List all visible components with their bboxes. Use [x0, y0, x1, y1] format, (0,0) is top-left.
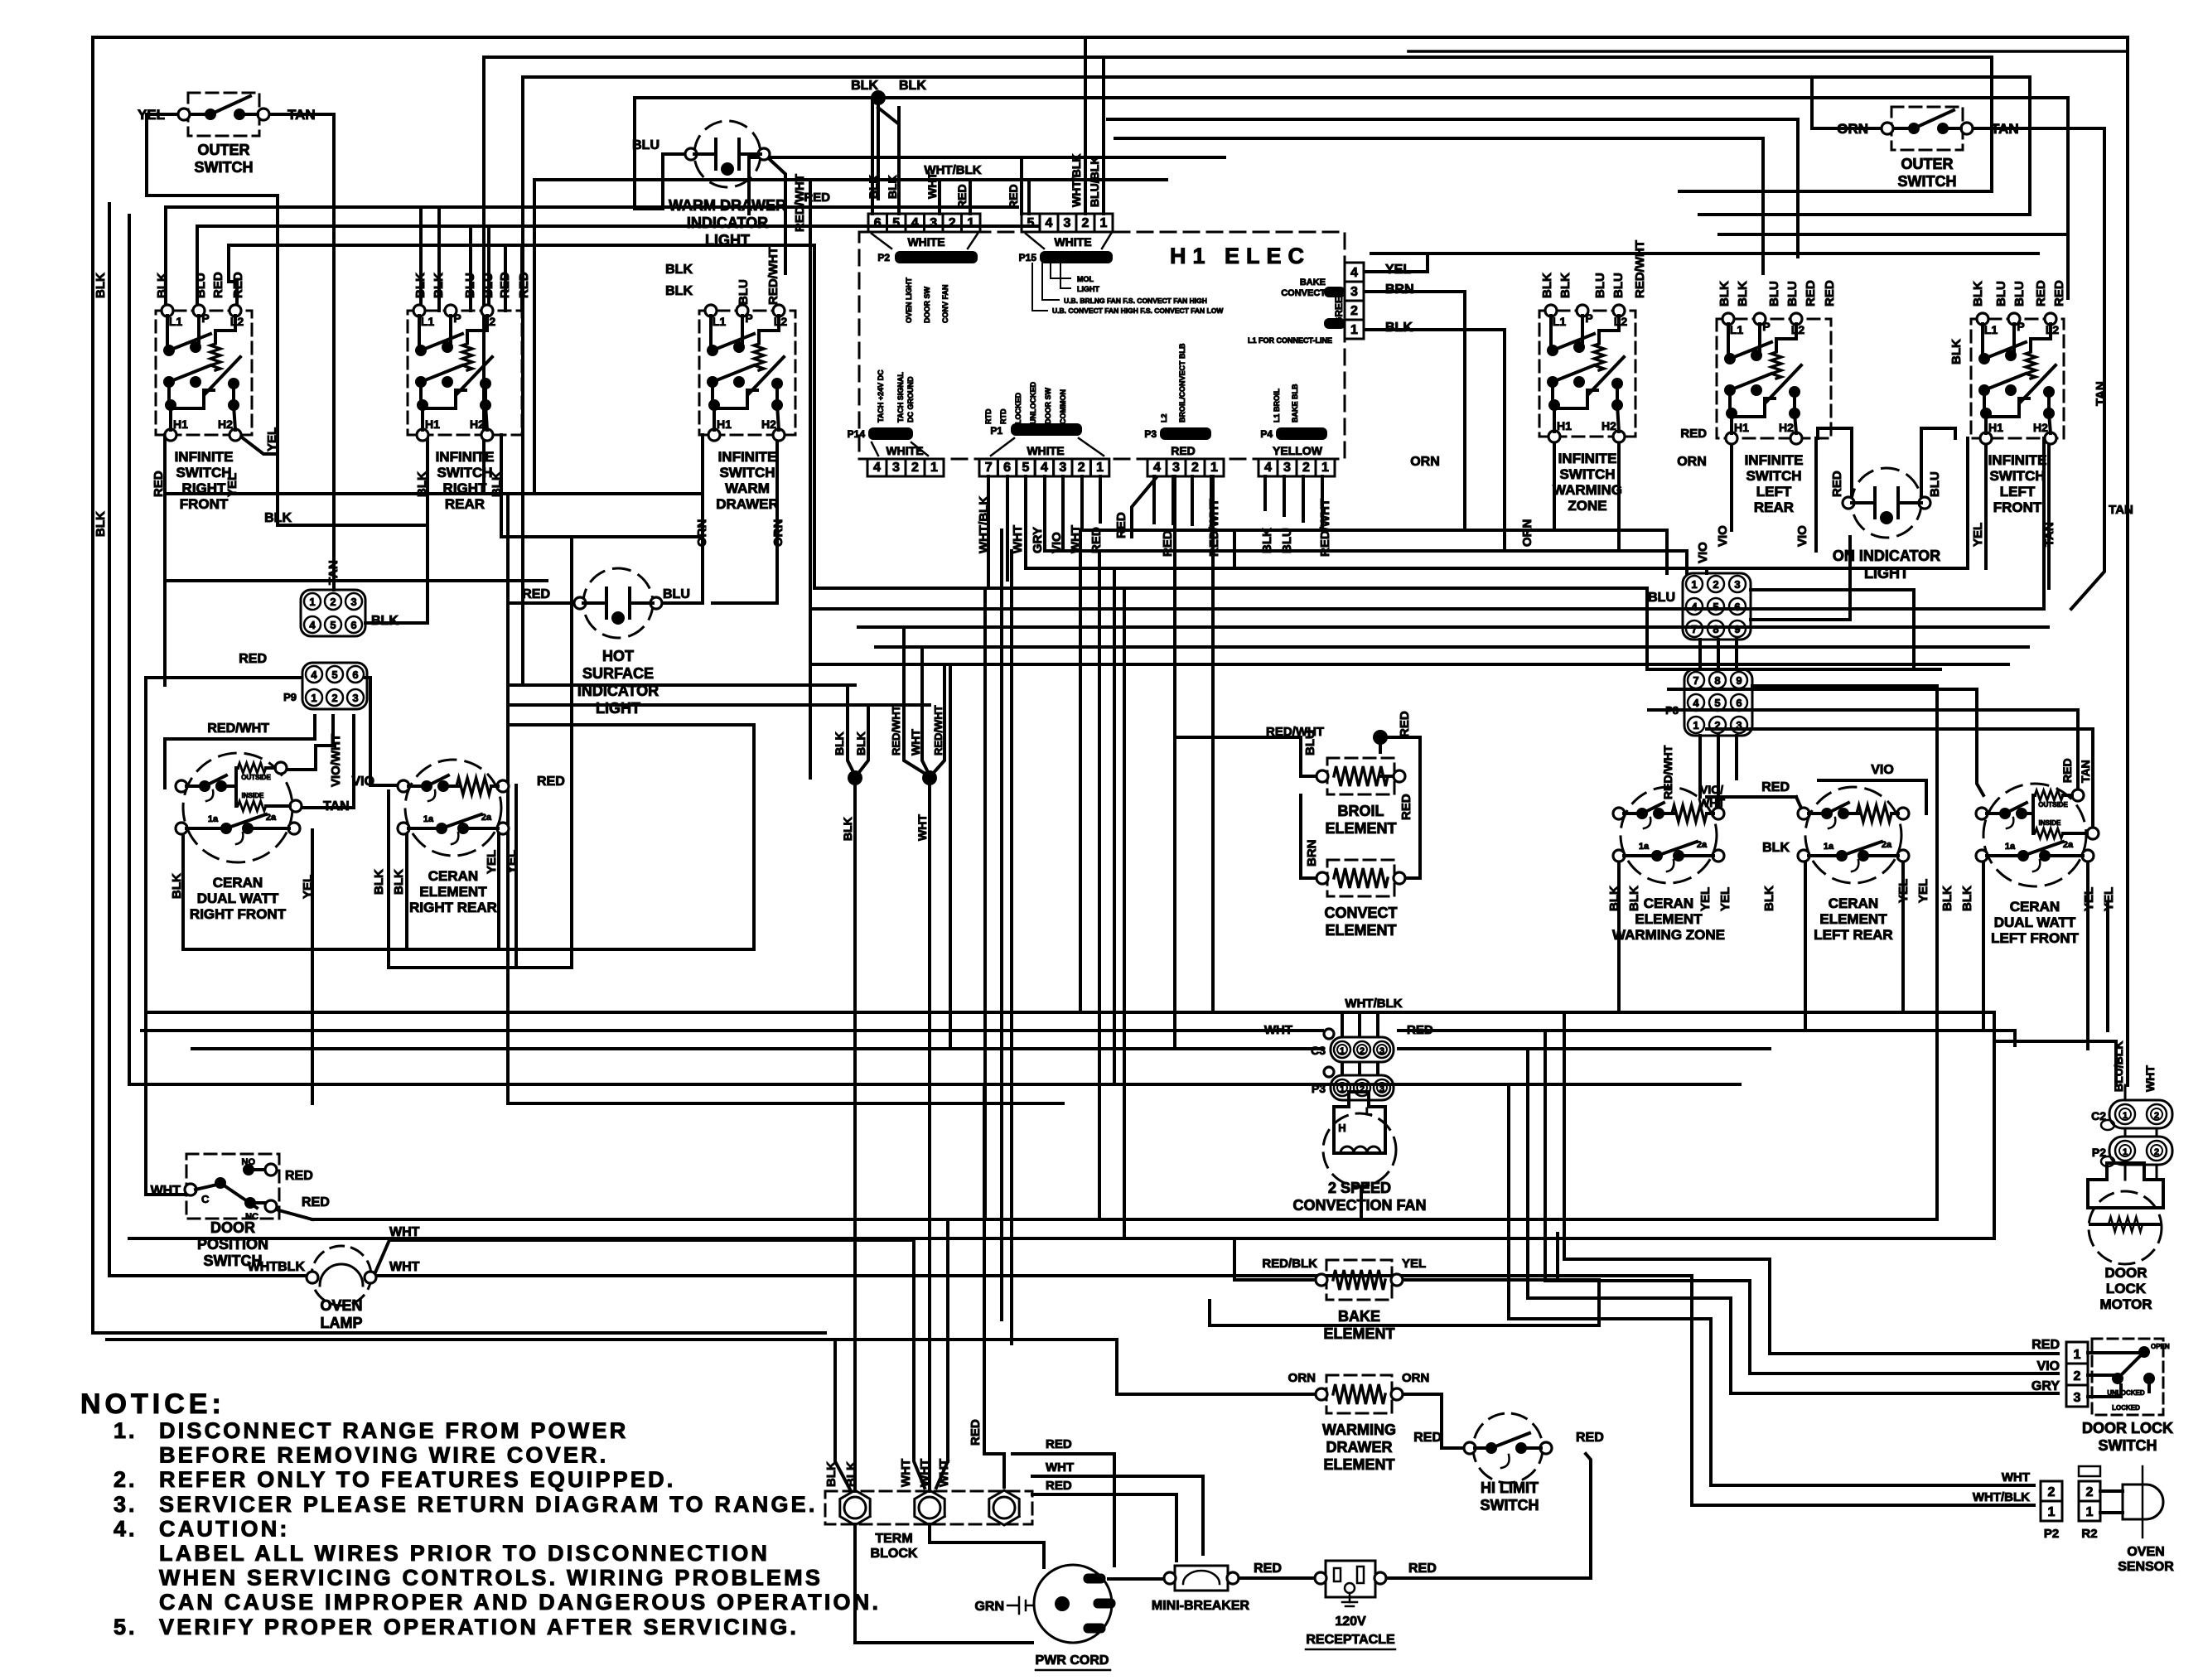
svg-text:BLK: BLK	[413, 273, 428, 298]
svg-text:BLK: BLK	[1736, 281, 1750, 307]
svg-text:2a: 2a	[1882, 840, 1892, 850]
wire labels center verticals	[804, 79, 1101, 209]
wire: on indicator leads	[1818, 428, 1955, 495]
svg-text:BLK: BLK	[1960, 886, 1974, 911]
connector P9 6-pin	[302, 663, 367, 709]
svg-text:1: 1	[1340, 1046, 1345, 1056]
120V receptacle	[1306, 1561, 1437, 1649]
svg-text:BLK: BLK	[94, 273, 108, 298]
svg-text:VIO: VIO	[1716, 525, 1730, 547]
svg-text:RIGHT: RIGHT	[182, 480, 227, 496]
svg-text:6: 6	[1736, 697, 1742, 709]
svg-text:4: 4	[911, 216, 919, 230]
connector P3 strip	[1144, 427, 1224, 476]
svg-text:1: 1	[1340, 1084, 1345, 1094]
svg-text:PWR CORD: PWR CORD	[1036, 1653, 1109, 1668]
svg-text:ORN: ORN	[1288, 1371, 1316, 1385]
svg-text:1: 1	[1691, 578, 1697, 591]
H1 ELEC control board outline	[859, 232, 1345, 459]
connector P15 strip	[1019, 214, 1113, 263]
svg-text:1a: 1a	[1824, 842, 1834, 852]
svg-text:U.B. BRLNG FAN F.S. CONVECT FA: U.B. BRLNG FAN F.S. CONVECT FAN HIGH	[1064, 297, 1207, 305]
wire: warm drawer light loop	[635, 154, 785, 273]
junction BLK pair into term feed	[833, 685, 868, 841]
svg-text:WHT: WHT	[1264, 1023, 1292, 1037]
svg-text:WHT/BLK: WHT/BLK	[977, 496, 991, 553]
svg-text:WARM: WARM	[725, 480, 770, 496]
wire: left switch drops	[166, 207, 522, 311]
svg-text:P3: P3	[1144, 428, 1157, 440]
svg-text:RED/WHT: RED/WHT	[1661, 745, 1674, 799]
svg-text:RED: RED	[2034, 280, 2048, 307]
svg-text:BLK: BLK	[1385, 321, 1413, 335]
svg-text:INSIDE: INSIDE	[2039, 819, 2061, 827]
svg-text:H2: H2	[1602, 419, 1616, 432]
connector C2	[2091, 1100, 2172, 1130]
oven lamp	[248, 1225, 420, 1331]
svg-text:6: 6	[1734, 601, 1740, 613]
svg-text:LIGHT: LIGHT	[705, 232, 750, 249]
svg-text:NO: NO	[242, 1157, 256, 1167]
svg-text:BLU/BLK: BLU/BLK	[2112, 1041, 2125, 1092]
svg-text:TERM: TERM	[875, 1532, 912, 1546]
svg-text:RED: RED	[1161, 530, 1175, 557]
connector P9 vertical strip	[1248, 263, 1414, 345]
svg-text:P2: P2	[2044, 1527, 2059, 1541]
hot surface indicator light	[574, 568, 662, 717]
C2 labels	[2112, 1041, 2157, 1092]
2 speed convection fan	[1292, 1092, 1426, 1214]
svg-text:ORN: ORN	[1520, 519, 1534, 547]
svg-text:2: 2	[331, 692, 337, 704]
svg-text:RECEPTACLE: RECEPTACLE	[1306, 1633, 1395, 1647]
svg-text:1.: 1.	[114, 1418, 138, 1443]
outer switch right	[1837, 107, 2018, 190]
wire: right feeder bus	[1371, 57, 2068, 298]
door lock switch	[2031, 1338, 2173, 1454]
svg-text:LOCKED: LOCKED	[1014, 393, 1022, 425]
wire: RF switch bottom	[165, 435, 703, 685]
svg-text:VIO: VIO	[1696, 542, 1710, 563]
svg-text:2: 2	[911, 461, 919, 475]
svg-text:H2: H2	[218, 418, 233, 431]
svg-text:WHT: WHT	[1698, 796, 1725, 809]
svg-text:6: 6	[352, 669, 358, 681]
svg-text:BLK: BLK	[264, 511, 292, 525]
svg-text:BLK: BLK	[833, 731, 846, 756]
svg-text:3.: 3.	[114, 1492, 138, 1517]
svg-text:MINI-BREAKER: MINI-BREAKER	[1152, 1599, 1250, 1613]
svg-text:BLK: BLK	[824, 1461, 838, 1487]
svg-text:REFER ONLY TO FEATURES EQUIPPE: REFER ONLY TO FEATURES EQUIPPED.	[159, 1467, 676, 1492]
svg-text:FRONT: FRONT	[180, 496, 229, 512]
svg-text:CERAN: CERAN	[1829, 896, 1878, 911]
svg-text:BROIL: BROIL	[1338, 803, 1384, 819]
svg-text:2: 2	[1191, 461, 1199, 475]
svg-text:BLK: BLK	[851, 79, 878, 93]
ceran element right rear	[398, 760, 509, 915]
wire: left lower bus	[183, 685, 930, 968]
svg-text:WHT/BLK: WHT/BLK	[1070, 153, 1083, 207]
svg-text:H2: H2	[1779, 421, 1794, 434]
warming drawer element	[1316, 1375, 1403, 1473]
svg-text:SENSOR: SENSOR	[2118, 1560, 2174, 1574]
svg-text:RED/WHT: RED/WHT	[1318, 499, 1332, 557]
svg-text:5: 5	[1027, 216, 1035, 230]
svg-text:BEFORE REMOVING WIRE COVER.: BEFORE REMOVING WIRE COVER.	[159, 1443, 608, 1468]
svg-text:BLU: BLU	[632, 138, 659, 152]
svg-text:H: H	[1338, 1122, 1345, 1134]
svg-text:DOOR: DOOR	[210, 1219, 255, 1236]
board fine print P2 area	[905, 277, 949, 323]
svg-text:1a: 1a	[208, 814, 219, 824]
svg-text:1: 1	[2048, 1505, 2056, 1519]
svg-text:1: 1	[1321, 461, 1329, 475]
svg-text:3: 3	[930, 216, 937, 230]
svg-text:RED: RED	[1413, 1431, 1442, 1445]
wire: hi limit loop	[1556, 1233, 1559, 1280]
svg-text:H1: H1	[1988, 421, 2003, 434]
svg-text:WARMING: WARMING	[1553, 482, 1622, 498]
wire labels left front switch	[1949, 280, 2133, 547]
svg-text:RED: RED	[537, 775, 565, 789]
svg-text:4: 4	[1046, 216, 1053, 230]
door position switch	[151, 1154, 330, 1269]
connector C8 9-pin	[1683, 573, 1751, 640]
svg-text:1a: 1a	[1639, 842, 1650, 852]
svg-text:BAKE BLB: BAKE BLB	[1291, 384, 1299, 422]
svg-text:RED: RED	[2052, 280, 2066, 307]
svg-text:OUTER: OUTER	[198, 142, 250, 158]
fan connector labels	[1264, 997, 1433, 1037]
svg-text:YEL: YEL	[301, 875, 315, 899]
wire labels warming zone switch	[1410, 240, 1707, 547]
svg-text:4: 4	[1693, 697, 1699, 709]
bake element	[1316, 1260, 1403, 1342]
svg-text:5: 5	[1022, 461, 1030, 475]
svg-text:CONVECTION FAN: CONVECTION FAN	[1292, 1197, 1426, 1214]
mini-breaker	[1152, 1562, 1282, 1613]
svg-text:MOL: MOL	[1077, 275, 1094, 283]
svg-text:TAN: TAN	[323, 799, 350, 813]
svg-text:3: 3	[1064, 216, 1071, 230]
svg-text:H1: H1	[173, 418, 188, 431]
svg-text:9: 9	[1734, 623, 1740, 635]
svg-text:2: 2	[1360, 1046, 1365, 1056]
svg-text:SWITCH: SWITCH	[1746, 468, 1801, 484]
svg-text:ORN: ORN	[771, 519, 785, 547]
outer border frame	[93, 37, 2128, 1333]
board fine print P14 area	[877, 369, 915, 422]
svg-text:1: 1	[1693, 719, 1698, 731]
svg-text:ORN: ORN	[1410, 455, 1440, 469]
svg-text:UNLOCKED: UNLOCKED	[1029, 382, 1037, 424]
svg-text:TAN: TAN	[2109, 503, 2133, 517]
ceran wire labels left	[170, 775, 565, 899]
svg-text:RED: RED	[152, 471, 166, 497]
svg-text:RIGHT FRONT: RIGHT FRONT	[190, 906, 287, 922]
svg-text:RED: RED	[2031, 1338, 2060, 1352]
svg-text:8: 8	[1713, 623, 1718, 635]
svg-text:TACH +24V DC: TACH +24V DC	[877, 369, 885, 422]
wire: V4 connector leads	[1366, 253, 1505, 551]
wire: P6 P5 pin drops	[1154, 476, 1322, 527]
svg-text:BLK: BLK	[844, 1461, 858, 1487]
wire: fan connector drops	[1342, 1012, 1378, 1219]
wire: door lock and sensor runs	[1692, 1041, 2116, 1505]
svg-text:C: C	[201, 1193, 210, 1205]
svg-text:P8: P8	[1665, 704, 1679, 717]
svg-text:BLK: BLK	[1949, 339, 1964, 364]
svg-text:LEFT: LEFT	[1756, 484, 1792, 500]
svg-text:RED/WHT: RED/WHT	[1633, 240, 1647, 298]
svg-text:TACH SIGNAL: TACH SIGNAL	[896, 372, 905, 422]
svg-text:7: 7	[1693, 674, 1698, 687]
svg-text:RED: RED	[1761, 780, 1790, 794]
wire: left switch H drops right side	[1554, 437, 2049, 588]
infinite switch right rear	[408, 305, 522, 512]
wire labels under P3	[1114, 477, 1221, 557]
svg-text:BAKE: BAKE	[1300, 278, 1326, 287]
svg-text:GRY: GRY	[2031, 1379, 2060, 1393]
svg-text:MOTOR: MOTOR	[2100, 1296, 2152, 1312]
svg-text:RED: RED	[2060, 758, 2074, 783]
svg-text:WHEN SERVICING CONTROLS. WIRIN: WHEN SERVICING CONTROLS. WIRING PROBLEMS	[159, 1566, 823, 1591]
wire: mid-left verticals	[572, 435, 777, 968]
svg-text:CERAN: CERAN	[2010, 899, 2060, 915]
svg-text:DISCONNECT RANGE FROM POWER: DISCONNECT RANGE FROM POWER	[159, 1418, 628, 1443]
svg-text:OUTER: OUTER	[1901, 156, 1954, 172]
svg-text:4: 4	[1691, 601, 1698, 613]
svg-text:P15: P15	[1019, 252, 1037, 263]
svg-text:3: 3	[1736, 719, 1742, 731]
wire: ceran bottom drops left	[183, 785, 516, 1103]
warm drawer indicator light	[669, 121, 786, 249]
svg-text:L2: L2	[1160, 413, 1168, 422]
svg-text:2: 2	[2048, 1485, 2056, 1499]
svg-text:RED: RED	[1399, 794, 1413, 820]
svg-text:3: 3	[1283, 461, 1291, 475]
svg-text:ELEMENT: ELEMENT	[1635, 911, 1703, 927]
svg-text:R2: R2	[2081, 1527, 2097, 1541]
svg-text:5: 5	[1714, 697, 1720, 709]
svg-text:1a: 1a	[2005, 842, 2016, 852]
svg-text:DOOR: DOOR	[2105, 1265, 2147, 1281]
svg-text:P2: P2	[877, 252, 890, 263]
infinite switch left rear	[1717, 313, 1831, 515]
svg-text:YEL: YEL	[1916, 879, 1930, 903]
svg-text:2: 2	[1302, 461, 1310, 475]
svg-text:BLK: BLK	[886, 175, 899, 199]
svg-text:1: 1	[1350, 323, 1358, 337]
svg-text:BAKE: BAKE	[1338, 1308, 1380, 1325]
svg-text:2: 2	[330, 596, 336, 608]
svg-text:SWITCH: SWITCH	[195, 159, 254, 176]
svg-text:RED/WHT: RED/WHT	[932, 705, 944, 756]
ceran dual watt right front	[176, 753, 302, 922]
svg-text:BLK: BLK	[372, 869, 386, 895]
svg-text:4: 4	[311, 669, 317, 681]
wire labels infinite switches top left	[94, 272, 531, 537]
svg-text:5: 5	[331, 669, 337, 681]
svg-text:LEFT REAR: LEFT REAR	[1814, 927, 1892, 943]
svg-text:INFINITE: INFINITE	[175, 449, 234, 465]
svg-text:SWITCH: SWITCH	[437, 465, 492, 480]
svg-text:DC GROUND: DC GROUND	[906, 376, 915, 422]
svg-text:YEL: YEL	[1698, 887, 1713, 911]
svg-text:SERVICER PLEASE RETURN DIAGRAM: SERVICER PLEASE RETURN DIAGRAM TO RANGE.	[159, 1492, 818, 1517]
svg-text:ZONE: ZONE	[1568, 498, 1606, 514]
svg-text:ELEMENT: ELEMENT	[1325, 820, 1396, 837]
svg-text:4: 4	[1041, 461, 1048, 475]
svg-text:BLK: BLK	[1971, 281, 1985, 307]
svg-text:BLU: BLU	[737, 279, 751, 305]
svg-text:BLK: BLK	[1940, 886, 1954, 911]
svg-text:H1: H1	[1557, 419, 1572, 432]
svg-text:LEFT FRONT: LEFT FRONT	[1991, 930, 2079, 946]
svg-text:L: L	[1365, 1105, 1372, 1118]
wire: left feeder bus	[166, 207, 1037, 245]
svg-text:BLK: BLK	[392, 869, 406, 895]
svg-text:TAN: TAN	[2094, 381, 2108, 406]
svg-text:LAMP: LAMP	[321, 1315, 363, 1331]
svg-text:YEL: YEL	[1971, 523, 1985, 547]
door lock motor	[2088, 1163, 2163, 1312]
svg-text:1: 1	[311, 692, 316, 704]
svg-text:2: 2	[1350, 304, 1358, 318]
svg-text:RED: RED	[285, 1169, 313, 1183]
svg-text:WHT: WHT	[2002, 1470, 2030, 1484]
svg-text:SWITCH: SWITCH	[1481, 1497, 1539, 1513]
power cord plug	[974, 1565, 1115, 1670]
svg-text:RED: RED	[1823, 280, 1837, 307]
svg-text:3: 3	[1379, 1046, 1384, 1056]
svg-text:RED: RED	[302, 1195, 330, 1209]
svg-text:BLK: BLK	[371, 614, 399, 628]
svg-text:BLK: BLK	[1627, 886, 1641, 911]
svg-text:WHT: WHT	[1069, 525, 1083, 553]
junction WHT trio into term feed	[890, 627, 944, 841]
infinite switch left front	[1971, 313, 2064, 515]
wire: top bus lines	[484, 57, 2068, 180]
svg-text:2a: 2a	[266, 813, 277, 823]
svg-text:OUTSIDE: OUTSIDE	[2038, 801, 2068, 809]
oven sensor	[1973, 1466, 2174, 1574]
svg-text:WHTBLK: WHTBLK	[248, 1260, 306, 1274]
svg-text:ORN: ORN	[1402, 1371, 1429, 1385]
svg-text:BLU: BLU	[194, 273, 208, 298]
svg-text:RED: RED	[1114, 512, 1128, 538]
svg-text:CERAN: CERAN	[428, 868, 478, 884]
svg-text:5.: 5.	[114, 1615, 138, 1639]
svg-text:RED: RED	[1408, 1562, 1437, 1576]
svg-text:SWITCH: SWITCH	[2099, 1437, 2157, 1454]
svg-text:ORN: ORN	[695, 519, 709, 547]
svg-text:3: 3	[1059, 461, 1066, 475]
wire: C2-P2-motor links	[2125, 1085, 2157, 1180]
terminal block	[825, 1490, 1032, 1561]
svg-text:H2: H2	[470, 418, 485, 431]
svg-text:WHITE: WHITE	[886, 444, 923, 457]
svg-text:GRY: GRY	[1031, 527, 1045, 553]
svg-text:BROIL/CONVECT BLB: BROIL/CONVECT BLB	[1178, 343, 1186, 422]
broil element	[1316, 758, 1405, 837]
svg-text:RED/WHT: RED/WHT	[1207, 499, 1221, 557]
broil labels	[1266, 711, 1413, 867]
connector C3	[1311, 1029, 1394, 1062]
svg-text:SWITCH: SWITCH	[176, 465, 231, 480]
svg-text:LEFT: LEFT	[2000, 484, 2036, 500]
svg-text:ELEMENT: ELEMENT	[1323, 1456, 1394, 1473]
svg-text:RIGHT: RIGHT	[443, 480, 488, 496]
svg-text:LABEL ALL WIRES PRIOR TO DISCO: LABEL ALL WIRES PRIOR TO DISCONNECTION	[159, 1541, 770, 1566]
svg-text:ELEMENT: ELEMENT	[1819, 911, 1887, 927]
svg-text:BRN: BRN	[1385, 282, 1414, 297]
hi limit switch	[1413, 1413, 1604, 1513]
svg-text:BLU/BLK: BLU/BLK	[1088, 157, 1101, 207]
svg-text:BLK: BLK	[415, 471, 429, 497]
term block labels	[824, 1419, 983, 1487]
svg-text:RED/WHT: RED/WHT	[793, 174, 807, 232]
infinite switch warm drawer	[699, 305, 795, 512]
board fine print P1 area	[984, 382, 1067, 424]
svg-text:DUAL WATT: DUAL WATT	[1994, 915, 2076, 930]
svg-text:RTD: RTD	[999, 408, 1007, 424]
svg-text:WHT: WHT	[909, 729, 922, 756]
svg-text:6: 6	[1003, 461, 1011, 475]
svg-text:RED: RED	[522, 587, 550, 601]
svg-text:DOOR SW: DOOR SW	[1044, 387, 1052, 424]
svg-text:RED: RED	[1407, 1023, 1433, 1037]
svg-text:2 SPEED: 2 SPEED	[1328, 1180, 1391, 1196]
svg-text:3: 3	[1379, 1084, 1384, 1094]
svg-text:P14: P14	[848, 428, 866, 440]
svg-text:WHT: WHT	[899, 1459, 913, 1487]
svg-text:RED: RED	[969, 1419, 983, 1446]
svg-text:BLK: BLK	[432, 273, 446, 298]
svg-text:1: 1	[2123, 1147, 2128, 1157]
svg-text:BLK: BLK	[854, 731, 867, 756]
connector P8 9-pin	[1684, 669, 1752, 736]
svg-text:BLU: BLU	[1593, 273, 1607, 298]
svg-text:RED: RED	[1046, 1437, 1072, 1451]
svg-text:INFINITE: INFINITE	[718, 449, 777, 465]
svg-text:RED: RED	[1089, 527, 1104, 553]
NOTICE text block	[80, 1388, 881, 1639]
svg-text:YEL: YEL	[1402, 1257, 1426, 1271]
svg-text:VIO/WHT: VIO/WHT	[329, 734, 343, 787]
svg-text:YEL: YEL	[1718, 887, 1732, 911]
wire: bottom left runs	[109, 1195, 1692, 1489]
svg-text:OUTSIDE: OUTSIDE	[241, 774, 271, 781]
wire: center bus under board	[810, 530, 2048, 710]
wire: long verticals	[109, 38, 2015, 1505]
svg-text:4: 4	[309, 619, 316, 631]
connector P14 strip	[848, 427, 944, 476]
wire: term block leads	[855, 778, 1591, 1643]
svg-text:1: 1	[2074, 1348, 2081, 1362]
svg-text:BLK: BLK	[1540, 273, 1554, 298]
svg-text:RED/WHT: RED/WHT	[766, 247, 780, 305]
svg-text:BLK: BLK	[94, 511, 108, 537]
svg-text:RED: RED	[1254, 1562, 1282, 1576]
board fine print P3 P4 area	[1160, 343, 1299, 422]
svg-text:BLU: BLU	[663, 587, 690, 601]
wire: left outer switch loop	[147, 114, 426, 590]
svg-text:4: 4	[1264, 461, 1272, 475]
svg-text:FRONT: FRONT	[1993, 500, 2042, 515]
svg-text:RED: RED	[1576, 1431, 1604, 1445]
